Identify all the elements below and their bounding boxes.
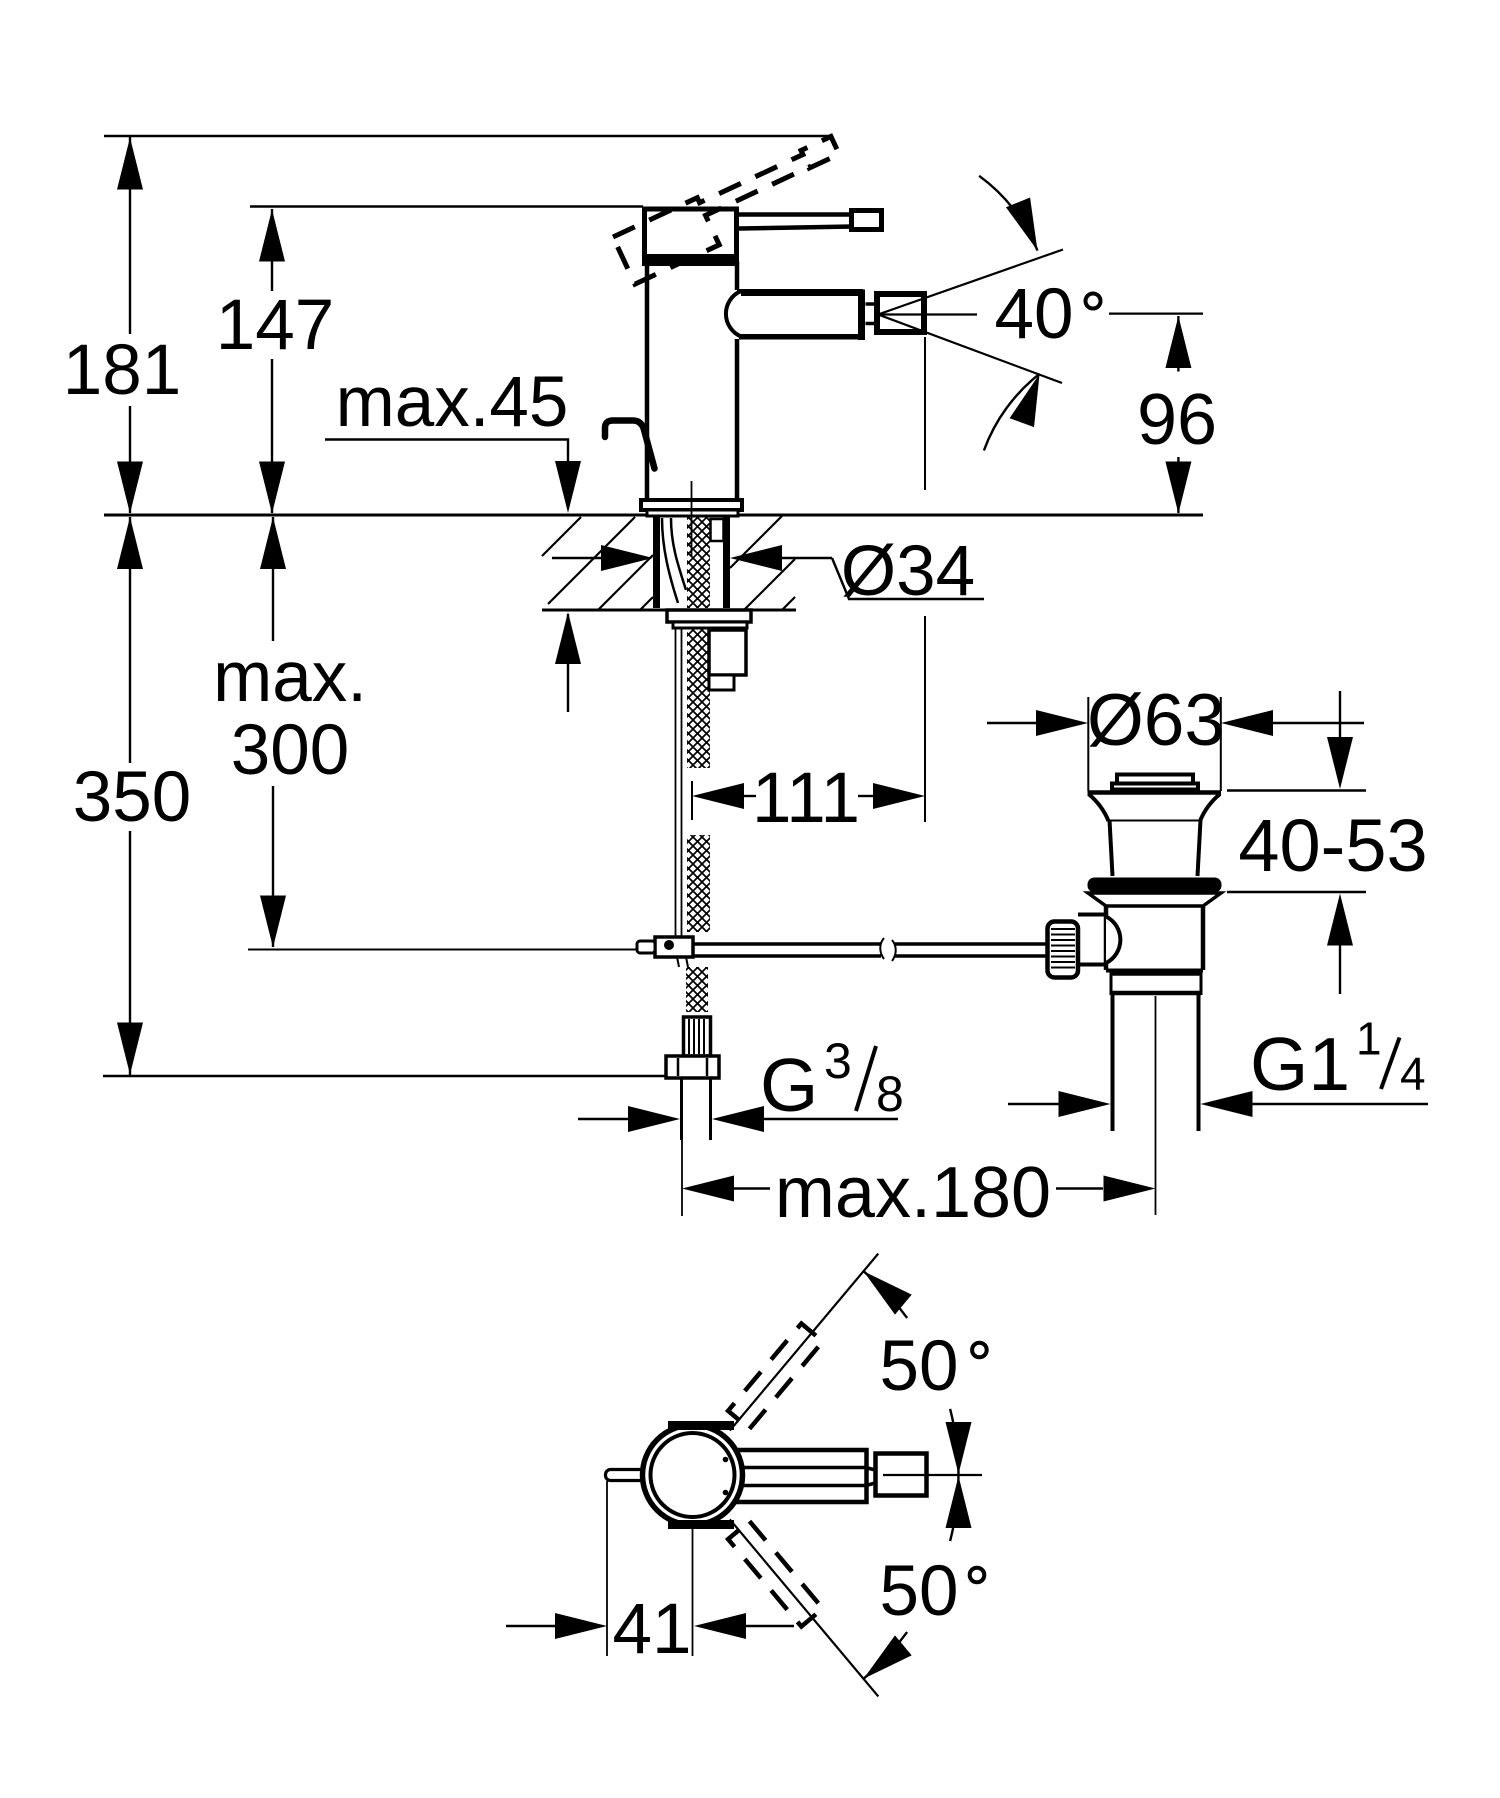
upper 50 arc arrow at centerline	[950, 1409, 958, 1475]
dim line 350 vertical	[129, 517, 131, 763]
dashed raised lever	[613, 136, 852, 285]
rod guide bushing in hole	[711, 519, 724, 541]
max.45 lower arrow	[567, 614, 569, 712]
svg-text:181: 181	[63, 331, 181, 410]
svg-text:1: 1	[1356, 1013, 1382, 1065]
svg-text:max.180: max.180	[775, 1153, 1051, 1233]
spout bottom line	[739, 334, 863, 340]
dim 40-53 lower	[1227, 891, 1366, 893]
svg-text:Ø34: Ø34	[841, 532, 975, 611]
dim 40-53 upper	[1339, 691, 1341, 738]
dim O34 arrows	[552, 557, 604, 559]
spout top line	[737, 289, 863, 296]
pop-up waste lower flange	[1088, 893, 1221, 906]
faucet cap bottom band	[642, 257, 739, 267]
top view: dashed lever upper 50	[728, 1324, 823, 1429]
dim 147 reference line	[250, 205, 643, 207]
dim 350 bottom reference line	[103, 1075, 716, 1077]
countertop bottom line	[542, 609, 796, 612]
top view: lever body rect	[712, 1450, 867, 1502]
top view: pop-up rod pin	[606, 1470, 646, 1481]
pop-up waste neck	[1110, 820, 1113, 876]
top view: cap bars	[668, 1421, 734, 1430]
top view: faucet body circle	[643, 1425, 743, 1525]
svg-text:40: 40	[995, 275, 1074, 354]
dim G1 1/4 arrows	[1008, 1103, 1060, 1105]
top view: 50 degree rays	[730, 1254, 879, 1431]
aerator neck	[866, 302, 876, 306]
hose end nut	[666, 1056, 719, 1078]
40 degree lower arc arrow	[984, 374, 1040, 451]
pop-up waste top flange	[1088, 790, 1222, 795]
dim max.180	[682, 1176, 734, 1202]
pop-up waste side port	[1078, 913, 1107, 917]
svg-text:111: 111	[752, 759, 860, 838]
max.45 leader line	[325, 440, 568, 473]
pop-up waste gasket	[1088, 878, 1222, 893]
svg-text:3: 3	[824, 1033, 852, 1089]
svg-text:96: 96	[1137, 380, 1217, 460]
lower 50 arc arrow at centerline	[950, 1475, 958, 1541]
braided hose upper section	[687, 628, 710, 768]
dim G3/8 arrows	[578, 1118, 628, 1120]
braided hose bottom section	[686, 967, 708, 1012]
faucet body left wall	[645, 261, 650, 501]
dim line 147 vertical	[271, 209, 273, 291]
hose end tube	[680, 1078, 683, 1140]
upper 50 arc arrow at ray	[864, 1271, 908, 1318]
pop-up rod clamp	[655, 937, 693, 957]
max.180 left extension line	[681, 1140, 683, 1216]
svg-text:G1: G1	[1250, 1022, 1350, 1106]
faucet centerline at base	[691, 481, 693, 556]
dim O63 extension lines	[1087, 697, 1089, 791]
lever shaft	[739, 212, 853, 217]
svg-text:50: 50	[880, 1552, 959, 1631]
svg-text:350: 350	[73, 758, 191, 837]
spout ball joint arc	[726, 291, 741, 337]
faucet handle cap	[645, 209, 737, 257]
pop-up rod vertical	[675, 629, 677, 936]
braided hose lower section	[687, 835, 710, 932]
svg-text:4: 4	[1400, 1048, 1426, 1100]
dim 96 vertical	[1177, 316, 1179, 372]
top view: lever inner lines	[724, 1468, 877, 1471]
dim line max.300 vertical	[272, 517, 274, 641]
shank nut	[667, 610, 751, 622]
40 degree upper arc arrow	[979, 176, 1037, 251]
pop-up waste body	[1104, 906, 1109, 970]
top view: horizontal centerline	[883, 1474, 982, 1476]
faucet body right wall	[735, 261, 740, 290]
spray angle lower line	[878, 315, 1062, 384]
svg-text:147: 147	[216, 286, 334, 365]
dim 111	[691, 781, 693, 820]
rod break marks	[880, 938, 884, 959]
spray angle center line	[878, 313, 977, 315]
hose end connector ribs	[684, 1017, 711, 1056]
svg-text:8: 8	[876, 1066, 904, 1122]
dim max.300 bottom reference line	[248, 949, 656, 951]
dim 41	[506, 1625, 556, 1627]
svg-text:41: 41	[613, 1590, 692, 1669]
pop-up waste coupling ring	[1111, 971, 1201, 976]
lower 50 arc arrow at ray	[864, 1632, 908, 1679]
pop-up waste tailpiece	[1111, 994, 1115, 1131]
tailpiece centerline	[1155, 996, 1157, 1215]
svg-text:40-53: 40-53	[1238, 804, 1427, 887]
hose curve in hole	[662, 518, 678, 603]
mounting hole left wall	[653, 517, 660, 608]
top view: screw dots	[723, 1457, 729, 1463]
pop-up rod knob at faucet	[605, 421, 655, 469]
hose connection block	[709, 630, 746, 675]
pop-up waste knurled knob	[1048, 922, 1079, 978]
pop-up waste push cap	[1117, 775, 1193, 784]
spout end edge	[858, 290, 865, 341]
horizontal pop-up rod	[693, 942, 881, 946]
svg-text:G: G	[760, 1043, 818, 1127]
dim line 181 vertical	[129, 137, 131, 334]
mounting hole right wall	[723, 517, 730, 608]
top view: dashed lever lower 50	[728, 1521, 823, 1626]
aerator body	[877, 294, 924, 332]
svg-text:300: 300	[231, 711, 349, 790]
braided hose in hole	[687, 517, 710, 608]
dim 41 extension lines	[606, 1481, 608, 1656]
svg-text:max.: max.	[213, 638, 367, 717]
svg-text:50: 50	[880, 1327, 959, 1406]
svg-text:Ø63: Ø63	[1087, 680, 1225, 761]
countertop hatching	[542, 516, 795, 610]
spray angle upper line	[878, 250, 1063, 315]
dim 181 top reference line	[104, 135, 830, 137]
dim O63 arrows	[987, 722, 1036, 724]
faucet base flange	[641, 500, 742, 510]
O34 leader	[832, 558, 984, 599]
countertop surface line	[104, 514, 1203, 517]
40 degree label line	[1109, 313, 1203, 315]
lever end knob	[852, 211, 882, 230]
svg-text:max.45: max.45	[336, 363, 569, 442]
aerator extension line	[924, 337, 926, 490]
top view: lever knob	[876, 1454, 927, 1496]
